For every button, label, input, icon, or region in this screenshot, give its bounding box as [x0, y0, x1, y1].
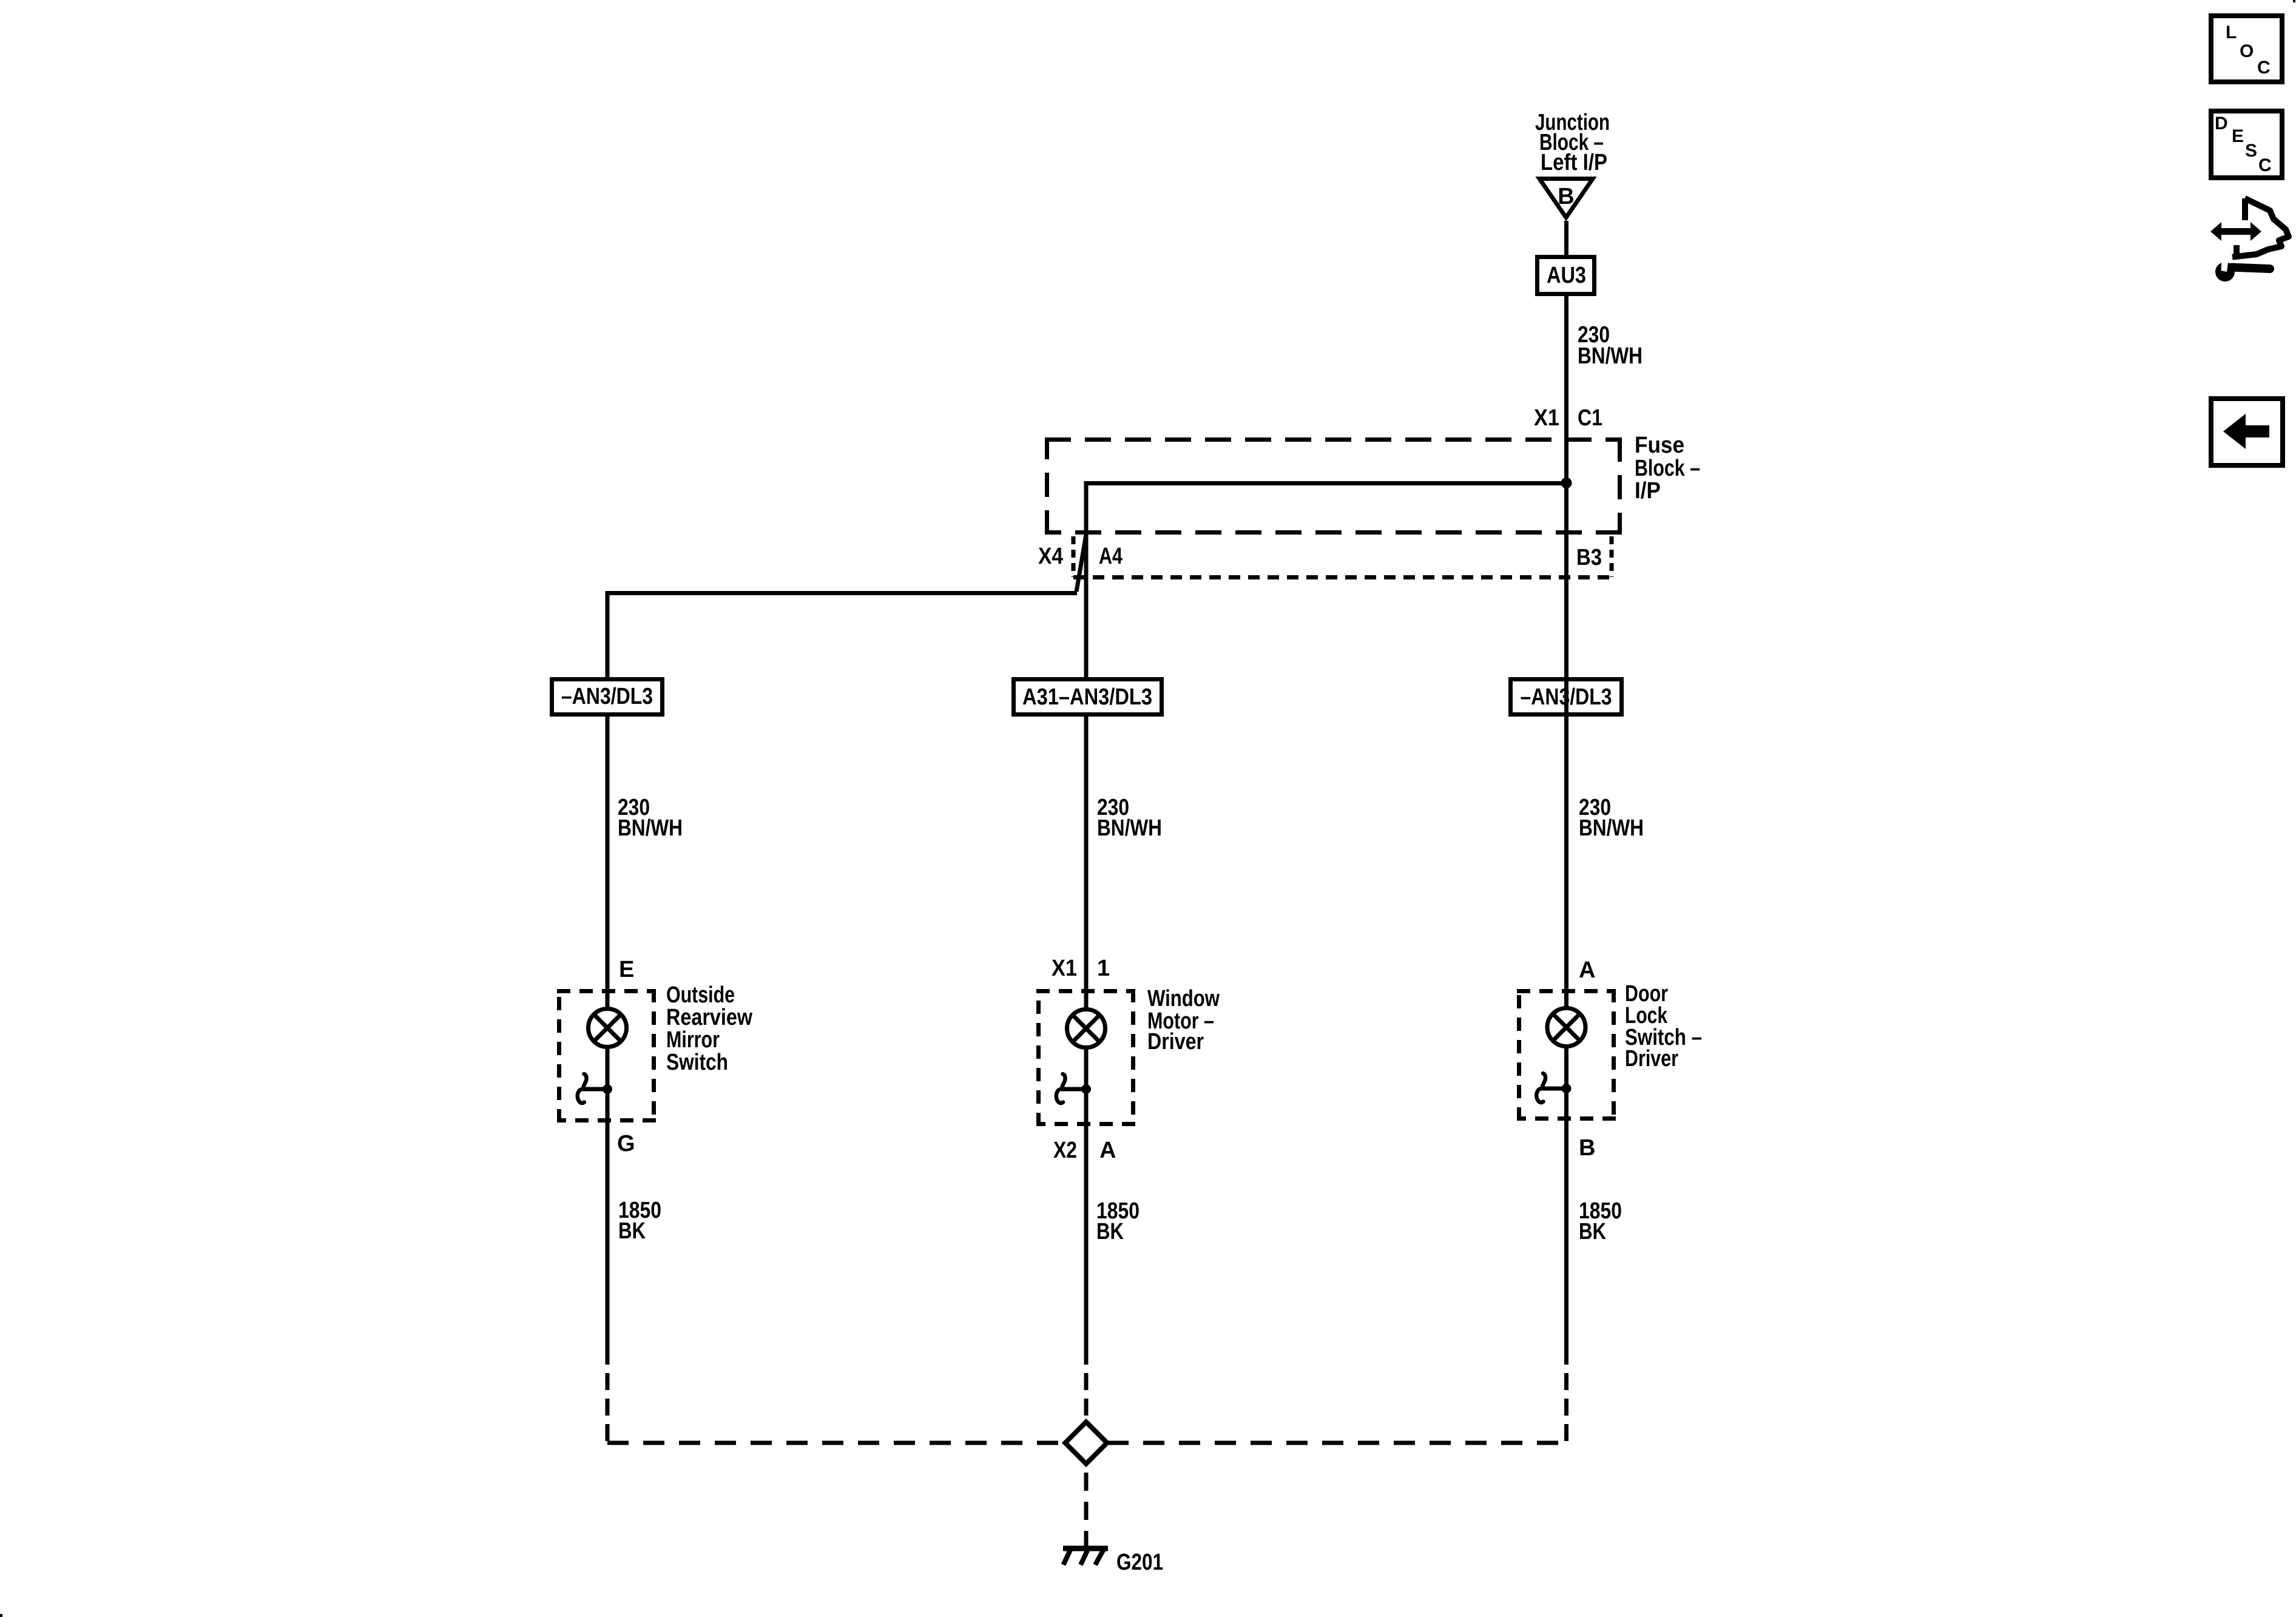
svg-text:Rearview: Rearview [666, 1005, 752, 1030]
connector X4 row dashed outline [1073, 536, 1612, 578]
svg-text:I/P: I/P [1635, 478, 1661, 504]
wire down left column [606, 593, 610, 677]
door lock switch contact [1536, 1073, 1571, 1102]
svg-text:Driver: Driver [1147, 1029, 1204, 1055]
svg-text:–AN3/DL3: –AN3/DL3 [1521, 684, 1612, 710]
splice jog through connector X4 pin A4 [1076, 535, 1086, 592]
splice diamond node [1065, 1422, 1107, 1464]
svg-text:BN/WH: BN/WH [1578, 343, 1643, 369]
ground bus dashed (left half) [607, 1441, 1065, 1445]
wire label 1850 BK (middle) [1096, 1198, 1140, 1244]
svg-text:A: A [1099, 1138, 1116, 1163]
svg-text:AU3: AU3 [1547, 263, 1586, 288]
svg-text:BK: BK [1579, 1219, 1606, 1244]
label: Window Motor - Driver [1147, 986, 1220, 1055]
svg-text:B: B [1558, 184, 1574, 209]
ground symbol G201 [1063, 1547, 1108, 1565]
svg-text:C1: C1 [1578, 405, 1602, 431]
label: Outside Rearview Mirror Switch [666, 982, 752, 1075]
mirror switch contact [578, 1074, 612, 1103]
wire label 1850 BK (right) [1579, 1198, 1622, 1244]
svg-text:A: A [1579, 957, 1595, 983]
svg-text:BN/WH: BN/WH [618, 815, 683, 841]
pin labels X2 A [1053, 1138, 1116, 1163]
svg-text:Mirror: Mirror [666, 1027, 720, 1053]
wire label 230 BN/WH (left) [618, 795, 683, 841]
sidebar DESC button [2211, 111, 2282, 178]
svg-text:L: L [2226, 22, 2237, 42]
svg-text:X2: X2 [1053, 1138, 1077, 1163]
svg-text:O: O [2240, 41, 2254, 61]
harness label -AN3/DL3 (left) [552, 680, 663, 715]
door lock switch lamp [1547, 1008, 1585, 1047]
mirror switch lamp [589, 1009, 627, 1047]
svg-text:Driver: Driver [1625, 1046, 1678, 1072]
svg-text:Fuse: Fuse [1635, 433, 1684, 458]
svg-text:B: B [1579, 1135, 1595, 1161]
svg-text:BN/WH: BN/WH [1579, 815, 1644, 841]
pin labels X4 A4 B3 [1038, 544, 1602, 570]
sidebar connector-repair icon (double arrow, connector outline, wrench) [2210, 200, 2289, 282]
svg-text:G201: G201 [1116, 1550, 1163, 1575]
svg-text:E: E [2232, 126, 2244, 146]
dashed wire to ground bus (left) [606, 1373, 610, 1443]
fuse block I/P dashed outline [1045, 437, 1622, 535]
svg-text:B3: B3 [1576, 545, 1602, 570]
wire label 1850 BK (left) [618, 1198, 661, 1244]
dashed wire to ground bus (middle) [1084, 1373, 1089, 1422]
svg-text:BK: BK [618, 1218, 646, 1244]
sidebar LOC button [2211, 16, 2282, 82]
wire label box to window motor [1084, 717, 1089, 1007]
svg-text:X1: X1 [1052, 956, 1077, 981]
svg-text:Window: Window [1147, 986, 1220, 1011]
page artifact top-right [2293, 0, 2295, 2]
svg-text:–AN3/DL3: –AN3/DL3 [561, 684, 653, 709]
svg-text:X4: X4 [1038, 544, 1063, 569]
window motor driver dashed box [1036, 989, 1135, 1126]
svg-text:BN/WH: BN/WH [1097, 815, 1162, 841]
pin labels X1 C1 [1534, 405, 1602, 431]
svg-text:A4: A4 [1099, 544, 1123, 569]
wire label 230 BN/WH (middle) [1097, 795, 1162, 841]
dashed wire diamond to ground [1084, 1473, 1089, 1551]
wire down from bus at A4 [1084, 483, 1089, 677]
dashed wire to ground bus (right) [1564, 1373, 1568, 1443]
wire lamp to switch contact (left) [606, 1049, 610, 1365]
junction block triangle connector B [1539, 179, 1593, 218]
door lock switch driver dashed box [1517, 989, 1616, 1121]
wire label box to mirror switch [606, 717, 610, 1007]
wire triangle to AU3 [1564, 221, 1568, 255]
wire lamp to switch contact (right) [1564, 1048, 1568, 1365]
label: Door Lock Switch - Driver [1625, 981, 1702, 1072]
svg-text:Left I/P: Left I/P [1541, 150, 1607, 175]
ground bus dashed (right half) [1107, 1441, 1567, 1445]
wire bus inside fuse block (junction to A4) [1084, 481, 1567, 485]
svg-text:G: G [617, 1131, 635, 1156]
harness label -AN3/DL3 (right) [1511, 680, 1622, 715]
outside rearview mirror switch dashed box [557, 989, 656, 1122]
wire label 230 BN/WH (right lower) [1579, 795, 1644, 841]
wire label 230 BN/WH (top right) [1578, 322, 1643, 369]
svg-text:C: C [2257, 58, 2271, 78]
wire lamp to motor contact (middle) [1084, 1050, 1089, 1365]
svg-text:X1: X1 [1534, 405, 1559, 431]
svg-text:Outside: Outside [666, 982, 735, 1008]
window motor contact [1056, 1074, 1091, 1103]
svg-text:A31–AN3/DL3: A31–AN3/DL3 [1022, 684, 1152, 710]
connector AU3 [1538, 257, 1595, 294]
label: Fuse Block - I/P [1635, 433, 1700, 504]
svg-text:Block –: Block – [1635, 456, 1700, 481]
wire branch to mirror switch [606, 591, 1078, 595]
page artifact bottom-left [0, 1614, 2, 1617]
svg-text:C: C [2258, 155, 2272, 175]
junction node on bus [1561, 478, 1572, 488]
sidebar back-arrow button [2211, 399, 2283, 465]
harness label A31-AN3/DL3 (middle) [1014, 680, 1162, 715]
svg-text:E: E [619, 957, 634, 982]
label: Junction Block - Left I/P [1535, 110, 1610, 175]
svg-text:BK: BK [1096, 1219, 1124, 1244]
svg-text:1: 1 [1097, 956, 1110, 981]
window motor lamp [1067, 1010, 1106, 1048]
svg-text:D: D [2215, 113, 2228, 133]
svg-text:Switch: Switch [666, 1050, 728, 1075]
svg-text:S: S [2245, 141, 2257, 161]
pin labels X1 1 [1052, 956, 1110, 981]
wire AU3 down to door lock switch (circuit 230 BN/WH) [1564, 296, 1568, 1007]
